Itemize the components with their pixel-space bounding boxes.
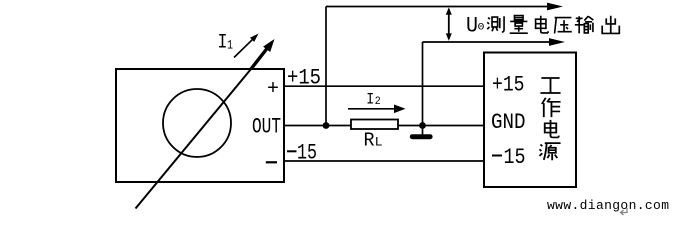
char 测 (487, 16, 504, 32)
char 作 (542, 98, 561, 117)
sensor circle (163, 89, 231, 157)
second output wire with arrow (423, 41, 552, 43)
char 源 (539, 143, 560, 160)
primary conductor diagonal wire (136, 69, 252, 209)
svg-text:+15: +15 (287, 66, 321, 91)
top output wire with arrow (326, 6, 549, 8)
svg-text:0: 0 (478, 22, 485, 34)
svg-text:1: 1 (227, 38, 233, 53)
char 压 (555, 18, 572, 34)
label -15 in power box (492, 155, 502, 157)
wire OUT horizontal (284, 125, 484, 127)
power supply box (484, 53, 576, 188)
svg-text:R: R (364, 129, 375, 151)
terminal - label (266, 161, 277, 163)
svg-text:L: L (375, 134, 383, 149)
ground symbol (422, 126, 424, 135)
char 电 (536, 16, 548, 33)
node dot ground junction (419, 122, 426, 129)
svg-text:15: 15 (504, 145, 526, 170)
svg-text:+15: +15 (492, 73, 525, 98)
node dot OUT (323, 122, 330, 129)
char 输 (575, 16, 593, 33)
svg-text:2: 2 (375, 96, 381, 108)
sensor box (Hall current sensor) (116, 69, 284, 182)
char 工 (540, 78, 560, 93)
primary conductor thick arrow segment (251, 49, 267, 70)
svg-text:15: 15 (297, 141, 317, 166)
char 电 (545, 120, 559, 138)
resistor RL body (351, 120, 398, 130)
svg-text:+: + (267, 78, 279, 101)
vertical label: working power supply 工作电源 (539, 78, 560, 160)
svg-text:I: I (218, 32, 228, 55)
svg-text:OUT: OUT (252, 115, 281, 140)
svg-text:U: U (466, 14, 478, 39)
label -15 (287, 150, 297, 152)
char 出 (602, 16, 619, 34)
label U0 measured voltage output 测量电压输出 (487, 16, 619, 34)
svg-text:www.diangon.com: www.diangon.com (547, 198, 669, 213)
current I1 annotation arrow (234, 39, 253, 58)
U0 double-headed measurement arrow (448, 9, 450, 39)
wire -15 horizontal (284, 160, 484, 162)
current I2 annotation arrow (348, 108, 396, 110)
wire +15 horizontal (284, 85, 484, 87)
char 量 (510, 16, 528, 34)
svg-text:GND: GND (491, 110, 526, 135)
watermark return symbol (621, 208, 628, 215)
vertical wire from ground node (422, 42, 424, 126)
vertical wire from OUT node (325, 7, 327, 126)
svg-text:I: I (366, 90, 374, 108)
